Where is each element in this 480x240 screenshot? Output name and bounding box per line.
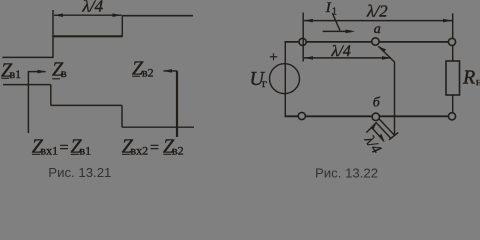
arrow: Z_в cross-section indicator (stem + right-pointing arrow)	[28, 70, 46, 133]
wire: lower conductor Z_в2 segment	[122, 126, 194, 128]
label U_г	[250, 68, 268, 90]
label I_1	[325, 0, 337, 18]
label R_н	[462, 67, 480, 89]
wire: upper conductor right step	[121, 15, 123, 37]
svg-text:λ/4: λ/4	[82, 0, 104, 15]
svg-text:=: =	[150, 140, 159, 157]
svg-text:1: 1	[332, 7, 337, 18]
leader line from I_1 to current arrow	[332, 13, 340, 30]
dimension λ/4 (left figure)	[54, 0, 122, 17]
arrow: current I_1 direction	[323, 30, 355, 34]
svg-text:вх2: вх2	[131, 144, 149, 158]
label Z_вх2 = Z_в2	[122, 136, 184, 158]
wire: top line of circuit	[285, 41, 453, 43]
svg-text:вх1: вх1	[41, 144, 59, 158]
svg-text:I: I	[325, 0, 332, 16]
wire: bottom line of circuit	[285, 115, 453, 117]
dimension tick: right (load terminal)	[452, 13, 454, 38]
wire: left vertical through source	[284, 42, 286, 116]
node: top right terminal	[448, 38, 455, 45]
svg-text:Рис. 13.21: Рис. 13.21	[48, 165, 111, 180]
node a	[372, 38, 379, 45]
node: generator bottom terminal	[298, 112, 305, 119]
svg-text:R: R	[462, 67, 475, 89]
voltage source U_г	[270, 64, 300, 94]
stub lower side of diagonal band	[376, 122, 391, 138]
dimension λ/2	[304, 2, 452, 23]
dimension tick: left (generator terminal)	[302, 13, 304, 62]
svg-text:=: =	[60, 140, 69, 157]
wire: lower conductor quarter-wave segment	[51, 104, 122, 106]
svg-text:в1: в1	[10, 67, 22, 81]
resistor R_н	[446, 45, 460, 112]
node: bottom right terminal	[448, 113, 455, 120]
stub conductor from node a (diagonal + vertical)	[378, 46, 394, 135]
stub length arrow (lower, pointing to short bar)	[372, 127, 385, 142]
wire: upper conductor, Z_в1 segment	[2, 56, 53, 58]
stub conductor from node б (upper side of diagonal band)	[379, 119, 395, 136]
arrow: Z_в2 cross-section indicator (left arrow + thick stem)	[163, 69, 177, 137]
dimension λ/4 (right figure)	[304, 43, 391, 60]
node б	[372, 113, 379, 120]
svg-text:н: н	[476, 76, 480, 88]
svg-text:λ/4: λ/4	[331, 43, 351, 60]
wire: upper conductor quarter-wave segment (thick)	[52, 35, 122, 37]
node: generator top terminal	[299, 38, 306, 45]
svg-text:в2: в2	[172, 144, 184, 158]
label Z_в2	[132, 58, 154, 80]
svg-text:в2: в2	[142, 66, 154, 80]
svg-text:в1: в1	[80, 144, 92, 158]
stub length arrow (upper, pointing to node б)	[366, 122, 376, 132]
wire: upper conductor Z_в2 segment	[122, 15, 193, 17]
svg-text:г: г	[262, 76, 267, 90]
label Z_в	[52, 59, 67, 81]
svg-text:a: a	[374, 22, 381, 37]
stub short-circuit bar	[389, 132, 398, 139]
svg-text:б: б	[373, 96, 381, 111]
svg-text:Рис. 13.22: Рис. 13.22	[315, 166, 378, 181]
wire: lower conductor step 2	[121, 105, 123, 127]
wire: lower conductor step 1	[50, 85, 52, 106]
label Z_в1	[1, 60, 21, 82]
svg-text:в: в	[61, 66, 67, 80]
svg-text:+: +	[269, 50, 277, 66]
wire: lower conductor, Z_в1 segment	[3, 84, 51, 86]
svg-text:λ/2: λ/2	[366, 2, 388, 21]
label Z_вх1 = Z_в1	[32, 136, 91, 158]
wire: upper conductor step / left dimension tick	[52, 10, 54, 58]
